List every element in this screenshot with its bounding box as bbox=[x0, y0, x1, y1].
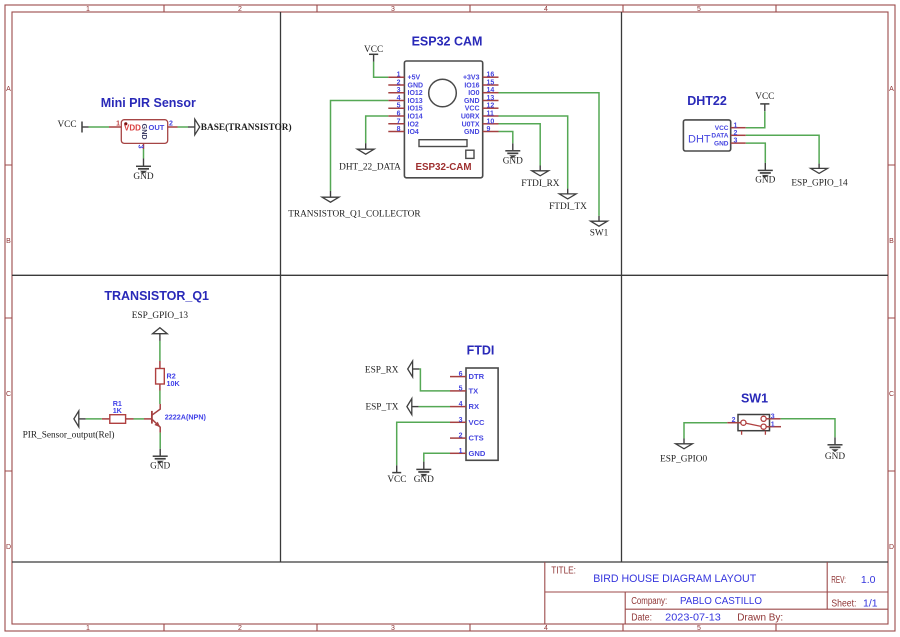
svg-text:15: 15 bbox=[487, 80, 495, 87]
svg-text:5: 5 bbox=[697, 6, 701, 13]
svg-text:D: D bbox=[889, 544, 894, 551]
svg-text:2023-07-13: 2023-07-13 bbox=[665, 612, 721, 624]
net label ESP_GPIO0 bbox=[660, 439, 707, 465]
net label FTDI_RX bbox=[521, 166, 560, 190]
svg-text:Date:: Date: bbox=[631, 613, 652, 624]
svg-text:PIR_Sensor_output(Rel): PIR_Sensor_output(Rel) bbox=[23, 430, 115, 441]
wire J1 GND to GND bbox=[424, 453, 450, 461]
ground GND (FTDI) bbox=[414, 462, 434, 485]
wire J1 VCC to VCC flag bbox=[397, 422, 450, 465]
svg-text:2222A(NPN): 2222A(NPN) bbox=[165, 413, 207, 422]
SW1 pin 2 bbox=[727, 422, 741, 424]
U3 pin 2 DATA bbox=[731, 134, 746, 136]
U1 pin 3 IO12 bbox=[388, 92, 404, 94]
svg-text:ESP_TX: ESP_TX bbox=[365, 403, 398, 413]
svg-text:GND: GND bbox=[464, 129, 480, 136]
wire IO14 to DHT_22_DATA bbox=[366, 116, 389, 143]
J1 pin 6 DTR bbox=[450, 376, 466, 378]
pin 3 (GND) bbox=[143, 143, 145, 149]
SW1 pin 1 bbox=[766, 426, 781, 428]
svg-text:OUT: OUT bbox=[149, 123, 165, 132]
pin Q1 base stub bbox=[144, 418, 152, 420]
svg-text:IO16: IO16 bbox=[464, 83, 479, 90]
U1 pin 9 GND bbox=[483, 131, 499, 133]
svg-text:CTS: CTS bbox=[469, 434, 484, 443]
svg-text:14: 14 bbox=[487, 87, 495, 94]
svg-text:2: 2 bbox=[732, 417, 736, 424]
svg-text:D: D bbox=[6, 544, 11, 551]
switch SW1 body bbox=[738, 415, 770, 435]
svg-text:VCC: VCC bbox=[465, 106, 480, 113]
net label TRANSISTOR_Q1_COLLECTOR bbox=[288, 191, 421, 220]
transistor Q1 2222A(NPN) bbox=[152, 404, 207, 433]
svg-text:SW1: SW1 bbox=[590, 228, 609, 238]
svg-text:TRANSISTOR_Q1: TRANSISTOR_Q1 bbox=[104, 289, 209, 303]
net label ESP_GPIO_13 bbox=[132, 311, 189, 341]
svg-text:ESP_GPIO_13: ESP_GPIO_13 bbox=[132, 311, 189, 321]
wire IO13 to TRANSISTOR_Q1_COLLECTOR bbox=[331, 101, 389, 192]
svg-text:GND: GND bbox=[825, 452, 845, 462]
SW1 pin 3 bbox=[766, 418, 780, 420]
svg-text:BASE(TRANSISTOR): BASE(TRANSISTOR) bbox=[201, 122, 292, 133]
wire U3 pin 3 to GND bbox=[746, 143, 766, 163]
svg-text:2: 2 bbox=[397, 80, 401, 87]
svg-text:5: 5 bbox=[697, 625, 701, 632]
svg-text:GND: GND bbox=[503, 156, 523, 166]
svg-text:GND: GND bbox=[408, 83, 424, 90]
ground GND (DHT22) bbox=[755, 163, 775, 186]
connector J1 FTDI body bbox=[466, 368, 498, 460]
svg-text:ESP_RX: ESP_RX bbox=[365, 365, 399, 375]
net label FTDI_TX bbox=[549, 189, 587, 212]
svg-text:GND: GND bbox=[464, 98, 480, 105]
wire VCC to U1 pin 1 bbox=[374, 62, 389, 77]
svg-text:TX: TX bbox=[469, 386, 479, 395]
svg-text:IO2: IO2 bbox=[408, 121, 419, 128]
svg-text:IO0: IO0 bbox=[468, 90, 479, 97]
U1 pin 2 GND bbox=[388, 84, 404, 86]
ground GND (SW1) bbox=[825, 437, 845, 462]
svg-text:DATA: DATA bbox=[711, 133, 728, 140]
svg-text:DTR: DTR bbox=[469, 372, 485, 381]
svg-text:IO15: IO15 bbox=[408, 106, 423, 113]
svg-text:10K: 10K bbox=[167, 379, 181, 388]
svg-text:Company:: Company: bbox=[631, 596, 667, 607]
svg-text:DHT: DHT bbox=[688, 134, 711, 146]
svg-text:C: C bbox=[889, 391, 894, 398]
svg-text:3: 3 bbox=[459, 417, 463, 424]
module U1 ESP32-CAM body bbox=[404, 61, 482, 178]
svg-text:RX: RX bbox=[469, 402, 480, 411]
svg-text:13: 13 bbox=[487, 95, 495, 102]
wire VCC to U2 pin 1 bbox=[89, 126, 110, 128]
net label SW1 bbox=[590, 216, 609, 238]
svg-text:4: 4 bbox=[544, 625, 548, 632]
svg-text:1: 1 bbox=[771, 421, 775, 428]
svg-text:DHT22: DHT22 bbox=[687, 94, 727, 108]
svg-text:1: 1 bbox=[397, 72, 401, 79]
power flag VCC (ESP32) bbox=[364, 45, 383, 62]
svg-text:8: 8 bbox=[397, 126, 401, 133]
pin 1 (VDD) bbox=[109, 126, 121, 128]
J1 pin 1 GND bbox=[450, 452, 466, 454]
ground GND (Q1) bbox=[150, 449, 170, 472]
svg-text:ESP_GPIO_14: ESP_GPIO_14 bbox=[791, 178, 848, 188]
svg-text:4: 4 bbox=[544, 6, 548, 13]
svg-text:10: 10 bbox=[487, 118, 495, 125]
net label BASE(TRANSISTOR) bbox=[188, 119, 292, 135]
J1 pin 5 TX bbox=[450, 390, 466, 392]
net label ESP_GPIO_14 bbox=[791, 164, 848, 189]
svg-text:GND: GND bbox=[414, 475, 434, 485]
U1 pin 7 IO2 bbox=[388, 123, 404, 125]
resistor R2 bbox=[156, 361, 181, 391]
svg-text:A: A bbox=[6, 86, 11, 93]
svg-text:+5V: +5V bbox=[408, 75, 421, 82]
power flag VCC (FTDI) bbox=[387, 465, 406, 485]
U1 pin 5 IO15 bbox=[388, 107, 404, 109]
svg-text:4: 4 bbox=[397, 95, 401, 102]
U3 pin 1 VCC bbox=[731, 127, 746, 129]
U1 pin 14 IO0 bbox=[483, 92, 499, 94]
svg-text:GND: GND bbox=[714, 141, 729, 148]
wire Q1 emitter to GND bbox=[159, 433, 161, 449]
net label DHT_22_DATA bbox=[339, 143, 401, 172]
svg-text:GND: GND bbox=[469, 449, 486, 458]
wire ESP_RX to J1 TX bbox=[419, 369, 450, 391]
svg-text:IO4: IO4 bbox=[408, 129, 419, 136]
U3 pin 3 GND bbox=[731, 142, 746, 144]
svg-text:B: B bbox=[6, 238, 11, 245]
resistor R1 bbox=[102, 399, 134, 423]
U1 pin 11 U0RX bbox=[483, 115, 499, 117]
svg-text:VDD: VDD bbox=[124, 123, 141, 132]
ground GND (PIR) bbox=[133, 159, 153, 182]
U1 pin 16 +3V3 bbox=[483, 76, 499, 78]
svg-text:6: 6 bbox=[397, 111, 401, 118]
svg-text:VCC: VCC bbox=[469, 418, 486, 427]
svg-text:11: 11 bbox=[487, 111, 495, 118]
svg-text:U0RX: U0RX bbox=[461, 114, 480, 121]
svg-text:BIRD HOUSE DIAGRAM LAYOUT: BIRD HOUSE DIAGRAM LAYOUT bbox=[593, 573, 756, 585]
svg-text:6: 6 bbox=[459, 371, 463, 378]
U1 pin 13 GND bbox=[483, 100, 499, 102]
svg-text:1/1: 1/1 bbox=[863, 597, 878, 609]
svg-text:5: 5 bbox=[459, 385, 463, 392]
svg-text:1: 1 bbox=[459, 448, 463, 455]
svg-text:3: 3 bbox=[734, 138, 738, 145]
svg-text:7: 7 bbox=[397, 118, 401, 125]
svg-text:FTDI_RX: FTDI_RX bbox=[521, 179, 560, 189]
svg-text:1: 1 bbox=[86, 6, 90, 13]
U1 pin 10 U0TX bbox=[483, 123, 499, 125]
J1 pin 2 CTS bbox=[450, 437, 466, 439]
net label PIR_Sensor_output(Rel) bbox=[23, 411, 115, 441]
svg-text:2: 2 bbox=[459, 433, 463, 440]
svg-text:2: 2 bbox=[734, 130, 738, 137]
J1 pin 3 VCC bbox=[450, 421, 466, 423]
svg-text:5: 5 bbox=[397, 103, 401, 110]
svg-text:Mini PIR Sensor: Mini PIR Sensor bbox=[101, 96, 196, 110]
pin 2 (OUT) bbox=[168, 126, 178, 128]
svg-text:TRANSISTOR_Q1_COLLECTOR: TRANSISTOR_Q1_COLLECTOR bbox=[288, 210, 421, 220]
wire R2 to Q1 collector bbox=[159, 391, 161, 405]
svg-text:DHT_22_DATA: DHT_22_DATA bbox=[339, 162, 401, 172]
svg-text:GND: GND bbox=[150, 462, 170, 472]
wire OUT to BASE label bbox=[178, 126, 189, 128]
U1 pin 1 +5V bbox=[388, 76, 404, 78]
U1 pin 15 IO16 bbox=[483, 84, 499, 86]
svg-text:1K: 1K bbox=[113, 406, 123, 415]
svg-text:12: 12 bbox=[487, 103, 495, 110]
U1 pin 12 VCC bbox=[483, 107, 499, 109]
svg-text:FTDI_TX: FTDI_TX bbox=[549, 202, 587, 212]
svg-text:ESP32-CAM: ESP32-CAM bbox=[415, 162, 471, 173]
svg-text:4: 4 bbox=[459, 401, 463, 408]
svg-text:3: 3 bbox=[391, 625, 395, 632]
wire ESP_GPIO_13 to R2 bbox=[159, 341, 161, 361]
sensor U2 Mini PIR body bbox=[121, 120, 167, 144]
svg-text:VCC: VCC bbox=[715, 125, 729, 132]
svg-text:IO14: IO14 bbox=[408, 114, 423, 121]
sensor U3 DHT22 body bbox=[683, 120, 730, 151]
svg-text:GND: GND bbox=[755, 175, 775, 185]
svg-text:1: 1 bbox=[86, 625, 90, 632]
svg-text:2: 2 bbox=[169, 121, 173, 128]
svg-text:B: B bbox=[889, 238, 894, 245]
svg-text:3: 3 bbox=[391, 6, 395, 13]
svg-text:IO12: IO12 bbox=[408, 90, 423, 97]
svg-text:VCC: VCC bbox=[755, 92, 774, 102]
wire U0TX to FTDI_RX bbox=[499, 124, 541, 166]
svg-text:1: 1 bbox=[116, 121, 120, 128]
wire DATA to ESP_GPIO_14 bbox=[746, 135, 819, 163]
U1 pin 6 IO14 bbox=[388, 115, 404, 117]
svg-text:3: 3 bbox=[137, 145, 144, 149]
ground GND (ESP32) bbox=[503, 143, 523, 166]
wire SW1 pin 2 to ESP_GPIO0 bbox=[684, 423, 727, 439]
J1 pin 4 RX bbox=[450, 406, 466, 408]
svg-text:C: C bbox=[6, 391, 11, 398]
svg-text:TITLE:: TITLE: bbox=[551, 565, 576, 576]
svg-text:2: 2 bbox=[238, 625, 242, 632]
svg-text:2: 2 bbox=[238, 6, 242, 13]
svg-text:1.0: 1.0 bbox=[861, 574, 876, 586]
wire ESP_TX to J1 RX bbox=[419, 406, 450, 408]
svg-text:ESP_GPIO0: ESP_GPIO0 bbox=[660, 454, 707, 464]
net label ESP_RX bbox=[365, 361, 419, 377]
svg-text:REV:: REV: bbox=[831, 575, 846, 586]
wire VCC to U3 pin 1 bbox=[746, 111, 765, 128]
svg-text:FTDI: FTDI bbox=[467, 343, 495, 357]
wire U0RX to FTDI_TX bbox=[499, 116, 568, 189]
svg-text:+3V3: +3V3 bbox=[463, 75, 480, 82]
wire SW1 pin 3 to GND bbox=[781, 419, 835, 438]
svg-text:GND: GND bbox=[140, 124, 149, 140]
svg-text:16: 16 bbox=[487, 72, 495, 79]
svg-text:A: A bbox=[889, 86, 894, 93]
svg-text:IO13: IO13 bbox=[408, 98, 423, 105]
svg-text:VCC: VCC bbox=[387, 475, 406, 485]
title block bbox=[545, 562, 888, 624]
wire U1 pin 9 to GND bbox=[499, 132, 513, 144]
wire R1 to Q1 base bbox=[134, 418, 145, 420]
svg-text:Sheet:: Sheet: bbox=[831, 598, 856, 609]
net label ESP_TX bbox=[365, 399, 418, 415]
wire PIR_Sensor_output to R1 bbox=[86, 418, 102, 420]
svg-text:SW1: SW1 bbox=[741, 392, 768, 406]
svg-text:3: 3 bbox=[771, 413, 775, 420]
svg-text:9: 9 bbox=[487, 126, 491, 133]
svg-text:3: 3 bbox=[397, 87, 401, 94]
U1 pin 8 IO4 bbox=[388, 131, 404, 133]
svg-text:VCC: VCC bbox=[364, 45, 383, 55]
svg-text:ESP32 CAM: ESP32 CAM bbox=[412, 35, 483, 49]
U1 pin 4 IO13 bbox=[388, 100, 404, 102]
wire U2 pin3 to GND bbox=[143, 149, 145, 159]
power flag VCC (DHT22) bbox=[755, 92, 774, 111]
svg-text:U0TX: U0TX bbox=[462, 121, 480, 128]
svg-text:GND: GND bbox=[133, 172, 153, 182]
svg-text:VCC: VCC bbox=[57, 120, 76, 130]
svg-text:PABLO CASTILLO: PABLO CASTILLO bbox=[680, 595, 762, 607]
svg-text:Drawn By:: Drawn By: bbox=[737, 613, 783, 624]
svg-text:1: 1 bbox=[734, 122, 738, 129]
wire IO0 to SW1 bbox=[499, 93, 600, 216]
power flag VCC (PIR) bbox=[57, 120, 88, 133]
